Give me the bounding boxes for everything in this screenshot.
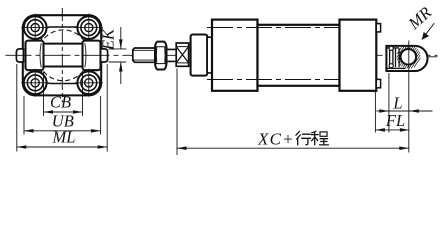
gland collar — [191, 35, 208, 76]
inner square (cylinder profile) — [42, 27, 86, 84]
tie-rod nut top-left — [21, 14, 49, 42]
tie-rod nut top-right — [75, 14, 103, 42]
FL dimension line — [375, 129, 409, 131]
band bottom line — [43, 65, 84, 67]
eye arm top inner line — [386, 47, 399, 49]
right trunnion pin cap — [101, 49, 108, 62]
svg-text:CB: CB — [50, 93, 71, 112]
XC extension line (rod end face) — [176, 69, 178, 156]
ML extension lines — [17, 64, 107, 152]
hanzi XING (row) — [296, 131, 311, 145]
vertical centerline of end view — [61, 8, 63, 103]
eye inner verticals — [396, 48, 400, 67]
L extension line (eye left face) — [388, 73, 390, 133]
ML dimension line — [17, 146, 107, 148]
tie-rod nut bottom-right — [75, 69, 103, 97]
UB dimension line — [24, 130, 101, 132]
L dimension line with outside arrows — [377, 110, 433, 112]
svg-text:ML: ML — [52, 128, 76, 147]
rod end block (X box) — [176, 43, 188, 66]
svg-text:XC+: XC+ — [257, 129, 295, 148]
trunnion band fill — [42, 45, 84, 66]
clevis pin — [390, 49, 393, 66]
collar step ring — [207, 37, 212, 73]
CB extension lines — [44, 72, 83, 116]
pin cap top — [389, 46, 393, 50]
cylinder tube — [258, 25, 340, 86]
pin cap bottom — [389, 64, 393, 68]
tie rod lower (dash-dot) — [207, 79, 376, 81]
hanzi CHENG (distance) — [311, 131, 328, 145]
right boss chamfer arc — [85, 43, 86, 67]
eye arm bottom inner line — [386, 67, 405, 69]
rear face extension line — [374, 90, 376, 133]
rod lock nut — [155, 42, 167, 70]
tie-rod nut bottom-left — [21, 69, 49, 97]
svg-text:L: L — [392, 94, 402, 113]
clevis plate tab bottom — [376, 79, 380, 87]
X box diagonals — [176, 47, 188, 63]
bore circle (dashed) — [38, 30, 89, 81]
main centerline — [6, 54, 438, 56]
left trunnion pin cap — [16, 49, 23, 62]
EK extension lines — [109, 49, 127, 62]
CB dimension line — [44, 111, 83, 113]
left boss — [26, 41, 44, 71]
eye horizontal crosshair extension — [427, 56, 438, 58]
piston rod thread end — [133, 48, 155, 62]
nut face lines — [155, 47, 167, 64]
UB extension lines — [24, 96, 101, 135]
eye bore circle — [401, 49, 417, 65]
band top line — [43, 43, 84, 45]
rear head — [340, 20, 377, 91]
clevis plate tab top — [376, 24, 380, 32]
thread core lines — [133, 50, 155, 60]
spherical bearing hatch — [397, 45, 421, 69]
X box inner lines — [176, 47, 188, 63]
svg-text:EK: EK — [99, 28, 118, 51]
MR leader arrow — [423, 23, 435, 38]
nut chamfer arcs — [156, 47, 165, 64]
left boss chamfer arc — [40, 43, 41, 67]
XC+stroke dimension line — [177, 147, 409, 149]
front head — [212, 20, 258, 91]
bracket plate ML outline — [23, 15, 101, 95]
EK dimension arrows — [120, 27, 122, 84]
tie rod upper (dash-dot) — [207, 27, 376, 29]
rod eye outer body — [386, 46, 427, 71]
eye vertical centerline / extension — [408, 41, 410, 153]
right boss — [83, 41, 101, 71]
svg-text:FL: FL — [385, 111, 405, 130]
piston rod — [167, 49, 177, 61]
